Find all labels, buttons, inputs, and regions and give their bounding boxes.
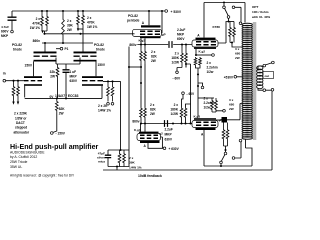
svg-text:2.2uF: 2.2uF xyxy=(177,28,185,32)
resistor 470K b (right pair) xyxy=(82,11,85,29)
resistor 470K b (left pair) xyxy=(46,11,49,31)
pentode V2 PCL82 upper-right xyxy=(196,38,216,40)
resistor 470K a (left pair) xyxy=(41,11,44,31)
resistor 180K upper a xyxy=(181,48,184,68)
wire V1 g2 from bus xyxy=(160,11,163,33)
svg-text:All rights reserved : @ copyri: All rights reserved : @ copyright : free… xyxy=(10,173,75,177)
wire 180K a to -60V xyxy=(177,68,182,71)
wire driver grid-leak rail xyxy=(56,58,80,65)
wire C2 leads xyxy=(65,64,67,98)
svg-text:attenuator: attenuator xyxy=(14,130,30,134)
svg-text:25W Triode: 25W Triode xyxy=(10,160,27,164)
UL lower junction block xyxy=(222,117,228,123)
wire 82K tops xyxy=(141,45,145,49)
wire V1 grid row y33 xyxy=(45,33,135,35)
svg-text:by A. Ciuffoli 2012: by A. Ciuffoli 2012 xyxy=(10,155,37,159)
svg-text:2W: 2W xyxy=(151,59,156,63)
wire U1b cathode to U2b anode (150V) xyxy=(95,62,97,77)
resistor 2.2ohm upper a xyxy=(194,57,197,66)
wire 0V rail xyxy=(25,97,102,99)
capacitor 2.2uF MKP 630V lower xyxy=(165,120,168,127)
svg-text:1/2W: 1/2W xyxy=(171,112,178,116)
svg-text:150V: 150V xyxy=(98,63,106,67)
resistor 680 2W upper b xyxy=(233,22,236,43)
wire 82K chain middles xyxy=(141,64,145,107)
wire 680 lower join xyxy=(224,146,228,152)
resistor 180K lower a xyxy=(180,107,183,119)
svg-text:1/4W 1%: 1/4W 1% xyxy=(129,166,142,170)
wire V2 anode riser xyxy=(203,3,205,38)
svg-text:10K / 8ohm: 10K / 8ohm xyxy=(252,10,269,14)
junction dots on +530V bus xyxy=(41,10,43,12)
svg-text:35W UL: 35W UL xyxy=(10,165,22,169)
resistor 180K lower b xyxy=(184,107,187,119)
svg-text:860v: 860v xyxy=(132,120,139,124)
wire V1 anode from bus xyxy=(148,11,150,25)
wire V4 gP strap xyxy=(161,137,163,148)
svg-text:2 x: 2 x xyxy=(175,52,180,56)
terminal P1 xyxy=(60,47,63,50)
triode U1a PCL82 left: anode, grid, cathode xyxy=(34,52,57,54)
wire cathode chain down xyxy=(197,68,199,117)
wire to out- xyxy=(266,89,272,91)
svg-text:1/4W 1%: 1/4W 1% xyxy=(98,109,111,113)
wire feedback to divider xyxy=(120,81,122,150)
svg-text:K,g2: K,g2 xyxy=(199,50,206,54)
trim arrow left pair xyxy=(41,30,43,33)
wire secondary top tap xyxy=(258,66,263,71)
capacitor C2 1uF MKP 630V xyxy=(63,70,70,73)
wire lower grid row xyxy=(140,123,192,125)
terminal -60V lower xyxy=(182,92,185,95)
svg-text:- 60V: - 60V xyxy=(187,92,195,96)
resistor 82K lower b xyxy=(144,107,147,119)
wire 470K join right xyxy=(78,28,83,30)
svg-text:12AX7 / ECC83: 12AX7 / ECC83 xyxy=(55,94,79,98)
wire V3 anode down xyxy=(203,130,205,166)
switch S1 blade xyxy=(225,9,229,16)
svg-text:PCL82: PCL82 xyxy=(94,43,104,47)
svg-text:DACT: DACT xyxy=(16,121,25,125)
wire 470K pair to D2 anode xyxy=(82,29,84,52)
wire 2.2ohm lower join xyxy=(212,111,223,112)
resistor 82K lower a xyxy=(140,107,143,119)
svg-text:630V: 630V xyxy=(165,138,173,142)
svg-text:630V: 630V xyxy=(70,79,78,83)
svg-text:470K: 470K xyxy=(87,21,95,25)
terminal P2a xyxy=(107,103,110,106)
pentode V4 PCL82 lower-left inverted xyxy=(139,132,159,134)
svg-text:MKP: MKP xyxy=(177,33,185,37)
svg-text:gP: gP xyxy=(162,33,166,37)
svg-text:2.2ohm: 2.2ohm xyxy=(204,101,215,105)
pentode V3 PCL82 lower-right inverted xyxy=(194,118,216,120)
resistor 470K a (right pair) xyxy=(77,11,80,29)
wire tap hook xyxy=(198,83,203,86)
svg-text:K,g3: K,g3 xyxy=(139,39,146,43)
svg-text:1W 1%: 1W 1% xyxy=(30,26,40,30)
resistor 82K upper a xyxy=(140,48,143,64)
wire 180K lower to -60V xyxy=(182,95,184,107)
svg-text:1W 1%: 1W 1% xyxy=(87,25,97,29)
resistor 220K a attenuator xyxy=(12,81,15,102)
svg-text:pentode: pentode xyxy=(127,19,140,23)
terminal -150V xyxy=(51,132,54,135)
svg-text:2 x: 2 x xyxy=(204,97,209,101)
resistor 2K a xyxy=(107,81,110,101)
wire to V2 grid xyxy=(173,44,192,46)
svg-text:4.7uF: 4.7uF xyxy=(1,25,9,29)
wire RC divider frame xyxy=(108,150,129,167)
wire U2a cathode to 0V xyxy=(24,86,26,98)
svg-text:AUDIODESIGNGUIDE: AUDIODESIGNGUIDE xyxy=(10,151,45,155)
svg-text:triode: triode xyxy=(13,47,22,51)
svg-text:2W: 2W xyxy=(67,28,72,32)
wire 860V anode rail xyxy=(42,42,93,44)
wire 82K lower to row xyxy=(141,119,145,124)
svg-text:2 x 2K: 2 x 2K xyxy=(98,104,108,108)
out label box xyxy=(263,72,274,79)
svg-text:600V: 600V xyxy=(177,37,185,41)
wire cross-couple to V3 row xyxy=(186,64,191,124)
wire 180K lower bottoms xyxy=(182,119,186,124)
svg-text:82K: 82K xyxy=(151,55,158,59)
wire V1 cathode stubs xyxy=(141,38,145,44)
svg-text:MKP: MKP xyxy=(1,34,9,38)
svg-text:- 60V: - 60V xyxy=(173,77,181,81)
terminal secondary bottom xyxy=(263,89,266,92)
resistor 2.2ohm upper b xyxy=(199,57,202,66)
wire divider to feedback line xyxy=(116,167,118,171)
terminal primary top xyxy=(239,22,242,25)
wire 680 tops xyxy=(229,21,235,23)
terminal -60V upper xyxy=(176,71,179,74)
svg-text:2 x: 2 x xyxy=(36,17,41,21)
triode U1b PCL82 right: anode, grid, cathode xyxy=(74,52,97,54)
resistor 2.2ohm lower a xyxy=(211,98,214,112)
svg-text:2W: 2W xyxy=(50,75,55,79)
wire global feedback loop xyxy=(103,91,272,170)
wire U1a anode lead xyxy=(44,43,46,52)
terminal cathode tap xyxy=(201,86,204,89)
wire anode to primary top direct xyxy=(244,3,246,23)
svg-text:+ 630V: + 630V xyxy=(169,147,180,151)
wire 82K to -150V xyxy=(53,114,57,133)
terminal V2 cathode xyxy=(212,54,215,57)
wire 2.2ohm join xyxy=(196,66,201,68)
terminal below C1 xyxy=(11,30,14,33)
resistor 39K b feedback xyxy=(123,150,126,167)
svg-text:out: out xyxy=(265,74,270,78)
svg-text:in: in xyxy=(3,72,6,76)
terminal secondary tap xyxy=(263,64,266,67)
terminal V3 cathode tap xyxy=(223,110,226,113)
svg-text:2.2ohm: 2.2ohm xyxy=(207,66,218,70)
capacitor C5 47pF silver mica xyxy=(105,155,111,157)
wire 82K chain tap xyxy=(129,66,141,68)
wire S2 throw2 to primary bottom xyxy=(235,142,241,158)
switch S2 blade xyxy=(221,155,224,161)
svg-text:1/2w: 1/2w xyxy=(204,106,211,110)
transformer secondary winding xyxy=(257,66,263,89)
wire 32k to 0V xyxy=(57,80,59,98)
svg-text:K,g3: K,g3 xyxy=(134,128,141,132)
resistor 220K b attenuator xyxy=(17,81,20,102)
attenuator wiper arrows xyxy=(12,102,14,105)
wire U2b cathode to 0V xyxy=(101,86,103,99)
svg-text:mica: mica xyxy=(98,160,105,164)
wire V1 cathode row xyxy=(137,44,168,46)
svg-text:2 x: 2 x xyxy=(174,103,179,107)
capacitor C1 47uF 600V MKP xyxy=(8,17,17,20)
svg-text:860v: 860v xyxy=(129,43,136,47)
svg-text:180K: 180K xyxy=(171,56,179,60)
svg-text:KT88: KT88 xyxy=(213,25,221,29)
svg-text:MKP: MKP xyxy=(70,75,78,79)
wire 180K lower b join xyxy=(186,104,191,107)
resistor 32k 2W xyxy=(56,64,59,80)
wire junction to lower UL tap xyxy=(227,104,243,120)
resistor 82K upper b xyxy=(144,48,147,64)
transformer primary winding xyxy=(242,23,253,139)
wire 470K join left xyxy=(42,31,47,34)
mode switch S1 xyxy=(223,6,226,9)
svg-text:180K: 180K xyxy=(170,108,178,112)
svg-text:1 uF: 1 uF xyxy=(70,70,77,74)
svg-text:680: 680 xyxy=(235,52,240,56)
svg-text:2W: 2W xyxy=(229,107,234,111)
resistor 39K 2W decoupling xyxy=(62,11,65,43)
svg-text:OPT: OPT xyxy=(252,5,258,9)
wire U2b grid row xyxy=(103,80,121,82)
capacitor 2.2uF MKP 600V upper xyxy=(169,41,172,48)
wire U1a cathode to U2a anode (150V) xyxy=(33,62,35,77)
svg-text:2W: 2W xyxy=(235,56,240,60)
svg-text:82K: 82K xyxy=(59,107,66,111)
switch S3 blade xyxy=(266,63,272,65)
wire 180K tops xyxy=(182,45,186,49)
triode U2a 12AX7 left: anode, grid, cathode xyxy=(24,76,42,78)
svg-text:150V: 150V xyxy=(25,64,33,68)
terminal input xyxy=(3,79,6,82)
svg-text:2 x: 2 x xyxy=(207,61,212,65)
svg-text:MKP: MKP xyxy=(165,133,173,137)
svg-text:600V: 600V xyxy=(1,30,9,34)
svg-text:1/2w: 1/2w xyxy=(207,70,214,74)
wire P1 stub xyxy=(56,48,60,50)
terminal out- xyxy=(271,89,274,92)
pentode V1 PCL82 upper-left xyxy=(141,25,161,27)
wire anode to switch row xyxy=(204,2,245,4)
resistor 82K 2W bias feed xyxy=(55,98,58,113)
svg-text:680: 680 xyxy=(229,103,234,107)
terminal primary bottom xyxy=(239,139,242,142)
wire V2 cathode lead xyxy=(195,49,197,55)
wire C1 leads xyxy=(11,11,13,30)
wire V4 anode to +630V xyxy=(148,143,163,148)
svg-text:- 150V: - 150V xyxy=(56,132,66,136)
mode switch S2 xyxy=(224,152,227,155)
svg-text:3 x: 3 x xyxy=(229,98,234,102)
wire divider upper leg xyxy=(128,47,130,151)
wire V4 cathode stubs xyxy=(141,124,146,132)
terminal +630V xyxy=(163,147,166,150)
svg-text:+530V: +530V xyxy=(224,76,234,80)
svg-text:82K: 82K xyxy=(150,108,157,112)
svg-text:2.2uF: 2.2uF xyxy=(165,128,173,132)
wire to 2.2ohm lower xyxy=(198,97,214,99)
svg-text:g2: g2 xyxy=(159,132,163,136)
svg-text:2 x 220K: 2 x 220K xyxy=(14,112,28,116)
svg-text:2 x: 2 x xyxy=(87,16,92,20)
svg-text:3 x: 3 x xyxy=(235,47,240,51)
resistor 680 2W lower a xyxy=(222,123,225,147)
svg-text:1/2W: 1/2W xyxy=(172,61,179,65)
svg-text:39K: 39K xyxy=(67,24,74,28)
wire bottom return xyxy=(204,140,252,167)
wire center tap to primary xyxy=(237,76,243,78)
resistor 680 2W upper a xyxy=(229,22,232,43)
wire input to U2a grid xyxy=(6,80,24,82)
resistor 2.2ohm lower b xyxy=(215,98,218,112)
svg-text:P1: P1 xyxy=(65,47,69,51)
wire V3 gP to junction xyxy=(216,119,222,121)
wire V2 g2 to switch xyxy=(218,22,229,44)
terminal out+ xyxy=(272,61,275,64)
svg-text:860v: 860v xyxy=(33,39,41,43)
svg-text:triode: triode xyxy=(96,48,105,52)
svg-text:10dB feedback: 10dB feedback xyxy=(138,174,162,178)
svg-text:+ 530V: + 530V xyxy=(171,10,182,14)
svg-text:2 x: 2 x xyxy=(129,156,134,160)
wire secondary bottom tap xyxy=(258,88,263,90)
transformer core xyxy=(253,22,256,140)
wire cathode to terminal xyxy=(196,54,212,56)
svg-text:2W: 2W xyxy=(150,112,155,116)
terminal +530V supply xyxy=(165,10,168,13)
wire 680 bottoms to UL tap xyxy=(230,43,243,48)
svg-text:with UL 40%: with UL 40% xyxy=(251,15,270,19)
svg-text:39K: 39K xyxy=(129,161,135,165)
svg-text:2 x: 2 x xyxy=(150,103,155,107)
wire +530V top bus xyxy=(12,10,165,12)
svg-text:1/2W or: 1/2W or xyxy=(15,116,27,120)
svg-text:PCL82: PCL82 xyxy=(128,14,138,18)
resistor 2K b xyxy=(111,81,114,101)
svg-text:stepped: stepped xyxy=(15,126,27,130)
terminal P2b xyxy=(111,103,114,106)
svg-text:32k: 32k xyxy=(50,70,56,74)
triode U2b 12AX7 right: anode, grid, cathode xyxy=(82,76,103,78)
wire C5 leads xyxy=(107,150,109,167)
resistor 39K a feedback xyxy=(118,150,121,167)
wire S1 throw2 to primary top xyxy=(235,7,241,21)
resistor 680 2W lower b xyxy=(226,123,229,147)
svg-text:2 x: 2 x xyxy=(67,19,72,23)
svg-text:2W: 2W xyxy=(59,112,64,116)
svg-text:470K: 470K xyxy=(32,22,40,26)
svg-text:K,g3: K,g3 xyxy=(194,115,201,119)
resistor 180K upper b xyxy=(185,48,188,68)
trim arrow right pair xyxy=(77,28,79,31)
svg-text:2 x: 2 x xyxy=(151,50,156,54)
